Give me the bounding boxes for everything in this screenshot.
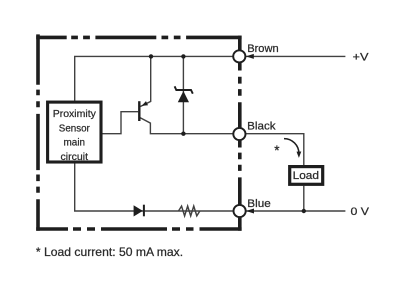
svg-text:+V: +V (353, 52, 370, 64)
svg-text:Brown: Brown (247, 43, 279, 55)
svg-text:Load: Load (293, 170, 319, 182)
svg-text:main: main (64, 138, 86, 149)
svg-text:Black: Black (247, 120, 276, 132)
svg-text:0 V: 0 V (351, 206, 370, 218)
svg-text:*: * (274, 143, 280, 158)
svg-text:circuit: circuit (61, 152, 89, 163)
svg-text:Blue: Blue (247, 198, 270, 210)
svg-text:Proximity: Proximity (53, 109, 97, 120)
svg-text:* Load current: 50 mA max.: * Load current: 50 mA max. (36, 245, 183, 259)
svg-text:Sensor: Sensor (59, 123, 91, 134)
